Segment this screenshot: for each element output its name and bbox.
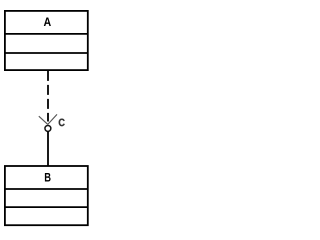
class B box <box>5 166 88 225</box>
class A separator 2 <box>5 52 88 54</box>
class B separator 1 <box>5 188 88 190</box>
class B separator 2 <box>5 206 88 208</box>
interface circle C <box>45 125 51 131</box>
solid wire C to B <box>47 131 49 165</box>
open arrowhead <box>39 114 57 124</box>
class A separator 1 <box>5 33 88 35</box>
label A <box>44 18 51 27</box>
class A box <box>5 11 88 70</box>
dashed dependency wire A to C <box>47 71 49 122</box>
label C <box>59 119 65 127</box>
label B <box>45 173 51 182</box>
